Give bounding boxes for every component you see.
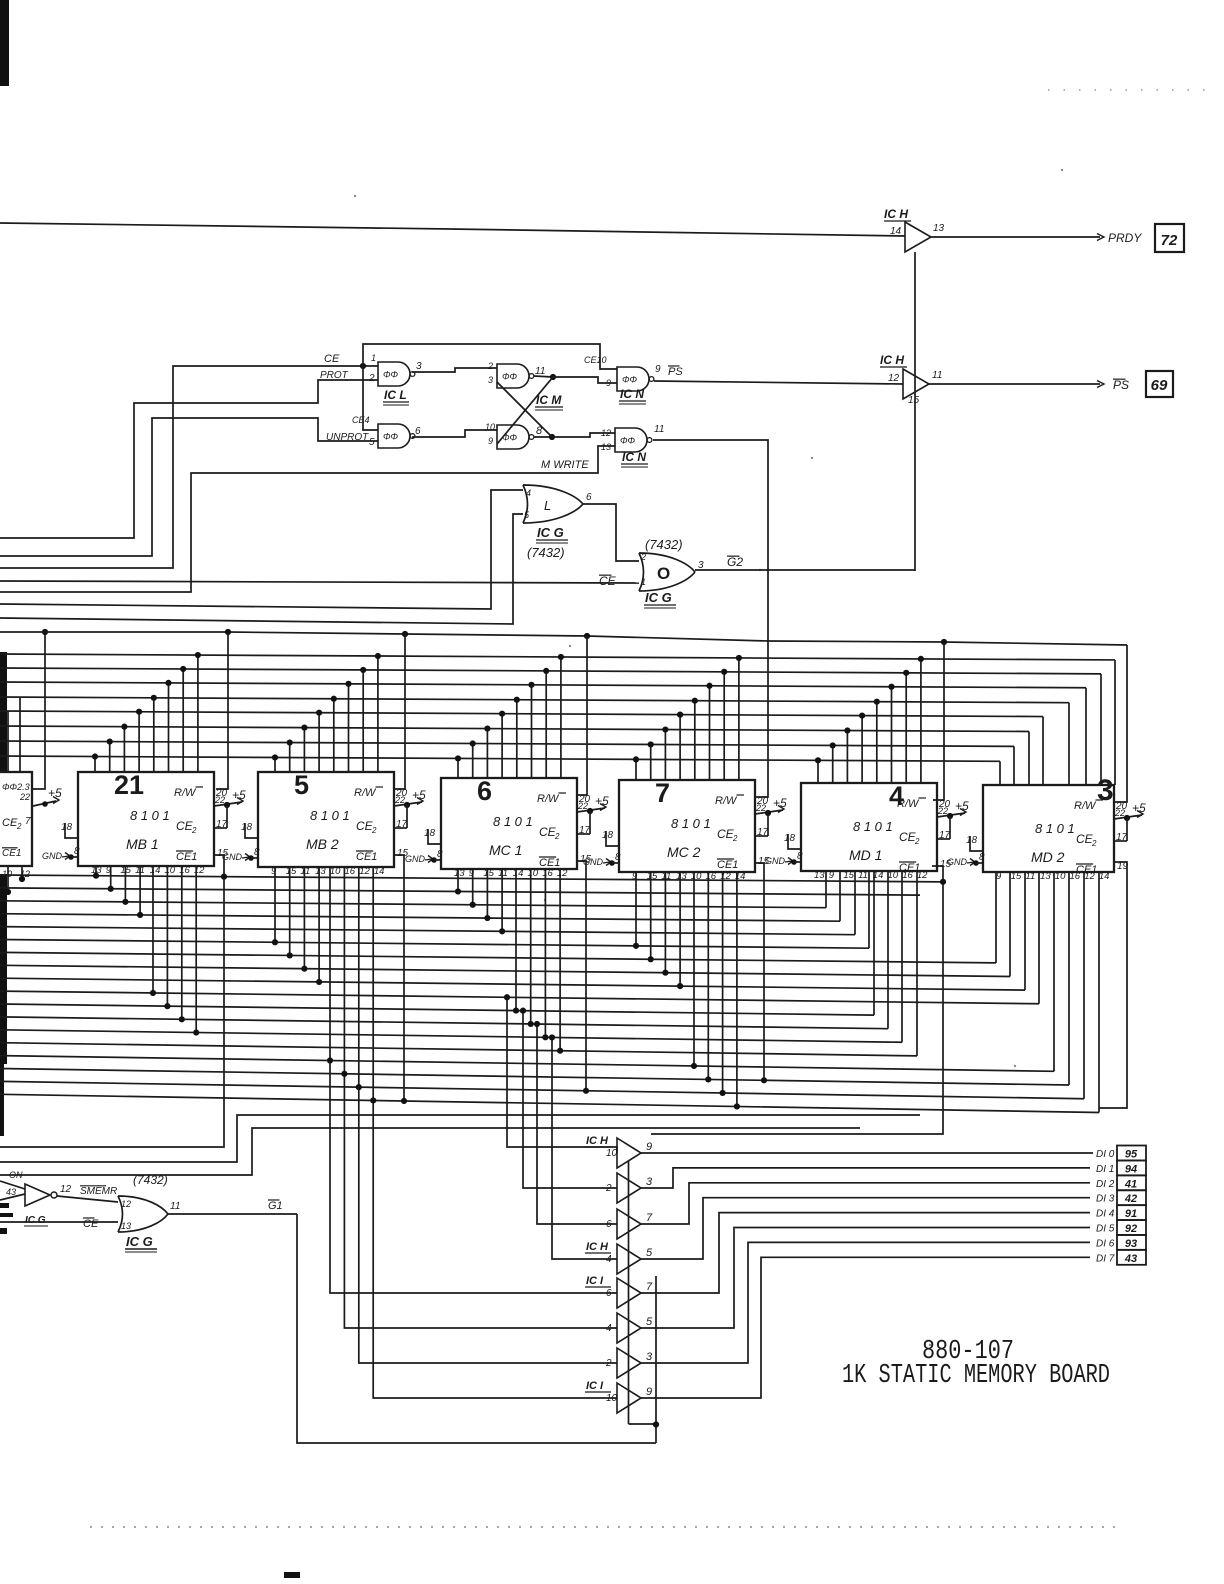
svg-text:R/W: R/W [715,795,738,807]
svg-text:6: 6 [606,1288,612,1299]
wire MB1 bottom pins deep [152,866,154,993]
svg-text:4: 4 [606,1254,612,1265]
svg-text:10: 10 [2,869,12,879]
buffer IC (DI4) [617,1278,641,1308]
svg-text:8: 8 [797,851,803,862]
wire lower bus line D10 [0,1004,874,1015]
svg-text:16: 16 [1070,871,1081,882]
wire latch A output [534,376,553,377]
svg-text:3: 3 [488,375,493,385]
wire lower bus line D12 [0,1030,902,1042]
wire lower bus line D16 [0,1081,1084,1098]
svg-text:22: 22 [1114,808,1125,818]
wire R/W drop MB2 [395,634,405,789]
wire buffer7 output to DI6 [641,1242,1090,1363]
svg-text:8: 8 [74,846,80,857]
wire addr drop MB2 pin2 [289,743,291,772]
wire addr drop MD1 pin4 [861,716,863,783]
wire lower bus line D3 [0,914,840,921]
svg-text:6: 6 [415,426,421,437]
wire address bus line A3 [0,682,1086,688]
svg-text:18: 18 [966,835,978,846]
svg-text:14: 14 [890,226,902,237]
wire address bus line A8 [0,756,1000,761]
svg-text:22: 22 [19,792,30,802]
wire MB2 deep pin to buffer7 [359,867,617,1363]
wire addr drop MC2 pin5 [694,701,696,780]
svg-text:SMEMR: SMEMR [80,1186,117,1197]
buffer IC (DI3) [617,1244,641,1274]
svg-text:16: 16 [179,865,190,876]
wire bus to buffer3 feed [537,1024,617,1224]
gate IC N nand B [615,428,647,452]
wire addr drop MC2 pin1 [635,759,637,780]
svg-text:ΦΦ: ΦΦ [622,375,638,385]
svg-text:11: 11 [858,870,868,881]
svg-text:7: 7 [655,778,670,808]
svg-text:10: 10 [888,870,899,881]
pin box DI4 [1117,1205,1146,1220]
buffer IC (DI7) [617,1383,641,1413]
svg-text:11: 11 [1025,871,1035,882]
wire addr drop MC2 pin3 [664,730,666,780]
scan artifact: bottom dash mark [284,1572,300,1578]
gate IC G or-2 [639,553,695,591]
svg-text:18: 18 [784,833,796,844]
svg-text:7: 7 [646,1212,653,1224]
wire MB1 bottom pins shallow [95,866,97,876]
wire G1 route to buffer enables [297,1214,656,1443]
svg-text:10: 10 [330,866,341,877]
svg-text:8: 8 [437,849,443,860]
svg-text:GND: GND [42,851,63,861]
wire G2 output [695,569,915,571]
svg-text:CE10: CE10 [584,355,607,365]
wire lower bus line D1 [0,888,920,895]
pin box DI6 [1117,1235,1146,1250]
svg-text:MD 1: MD 1 [849,847,882,863]
svg-text:43: 43 [1124,1253,1137,1265]
svg-text:+5: +5 [773,796,787,810]
svg-text:8: 8 [254,847,260,858]
svg-text:GND: GND [765,856,786,866]
wire addr drop MD1 pin5 [876,702,878,783]
svg-text:4: 4 [606,1323,612,1334]
svg-text:IC M: IC M [536,393,562,407]
svg-text:DI 4: DI 4 [1096,1209,1115,1220]
wire A8 wrap drop to MD2 [999,761,1001,785]
svg-text:11: 11 [170,1201,180,1212]
svg-text:15: 15 [908,395,920,406]
svg-text:9: 9 [271,866,277,877]
wire addr drop MB2 pin8 [377,656,379,772]
partial chip RW vertical [32,632,45,789]
svg-text:14: 14 [150,865,161,876]
wire latch cross coupling 2 [497,382,552,437]
svg-text:10: 10 [606,1393,618,1404]
svg-text:42: 42 [1124,1193,1137,1205]
gate IC G or-1 [523,485,583,523]
wire addr drop MC1 pin1 [457,758,459,778]
wire or1 input5 feed [0,514,523,624]
gate IC M nand A (latch) [497,364,529,388]
wire R/W drop MD2 (wrap corner) [1115,645,1127,802]
svg-text:11: 11 [932,370,942,381]
wire PS to buffer [654,381,903,384]
wire MB2 deep pin to buffer6 [344,867,617,1328]
svg-text:15: 15 [286,866,297,877]
svg-text:9: 9 [488,436,493,446]
wire addr drop MC1 pin7 [545,671,547,778]
RAM 8101 MC2 [619,780,755,872]
wire addr drop MB1 pin3 [123,727,125,772]
wire addr drop MD1 pin7 [905,673,907,783]
wire R/W drop MC1 [578,636,587,795]
svg-text:6: 6 [586,492,592,503]
wire PRDY input rail [0,223,905,236]
wire addr drop MC1 pin6 [531,685,533,778]
svg-text:10: 10 [1055,871,1066,882]
wire buffer6 output to DI5 [641,1228,1090,1329]
svg-text:R/W: R/W [354,787,377,799]
svg-text:ΦΦ: ΦΦ [383,432,399,442]
svg-text:95: 95 [1125,1149,1138,1161]
svg-text:DI 6: DI 6 [1096,1238,1115,1249]
svg-text:12: 12 [888,373,900,384]
wire ICN B output to RW bus [653,440,768,641]
svg-text:IC G: IC G [25,1215,46,1226]
scan artifact: sparse specks [354,195,356,197]
wire addr drop MB1 pin6 [168,683,170,772]
svg-text:2: 2 [371,826,377,835]
svg-text:18: 18 [241,822,253,833]
svg-text:IC N: IC N [620,387,644,401]
wire SMEMR to or3 [57,1196,118,1202]
wire R/W drop MB1 [216,632,228,789]
svg-text:DI 3: DI 3 [1096,1194,1115,1205]
wire addr drop MC2 pin8 [738,658,740,780]
svg-text:14: 14 [513,868,524,879]
wire PRDY output [931,236,1100,238]
wire CE1 MC1 drop [577,861,586,1091]
svg-text:(7432): (7432) [527,545,565,560]
wire buffer2 output to DI1 [641,1168,1090,1188]
svg-text:ΦΦ2.3: ΦΦ2.3 [2,782,30,792]
buffer IC H (PS) U-H2 [903,369,929,399]
svg-text:14: 14 [374,866,385,877]
wire addr drop MB1 pin4 [138,712,140,772]
svg-text:22: 22 [937,806,948,816]
partial chip bottom pin stubs [7,866,9,892]
wire lower bus line D11 [0,1017,888,1029]
svg-text:O: O [657,564,670,583]
wire MC1 bottom pins deep [515,869,517,1011]
wire bus to buffer2 feed [523,1011,617,1188]
svg-text:12: 12 [917,870,928,881]
svg-text:2: 2 [914,837,920,846]
wire addr drop MB1 pin7 [182,669,184,772]
svg-text:CE: CE [83,1218,99,1230]
svg-text:6: 6 [477,776,492,806]
svg-text:10: 10 [528,868,539,879]
wire latch to ICN A [553,377,617,383]
svg-text:6: 6 [606,1219,612,1230]
pin box 72 (bus pin PRDY) [1155,224,1184,252]
wire addr drop MB1 pin5 [153,698,155,772]
wire addr drop MB2 pin3 [303,728,305,772]
svg-text:15: 15 [843,870,854,881]
svg-text:94: 94 [1125,1163,1137,1175]
wire latch cross coupling 1 [497,377,553,444]
svg-text:2: 2 [554,832,560,841]
svg-text:IC I: IC I [586,1275,604,1287]
wire bus to buffer1 feed [507,997,617,1153]
svg-text:13: 13 [601,442,611,452]
svg-text:7: 7 [646,1281,653,1293]
svg-text:DI 0: DI 0 [1096,1149,1115,1160]
wire addr drop MC1 pin5 [516,700,518,778]
wire address bus line A2 [0,668,1101,674]
wire CE-bar feed to or2 [0,581,639,583]
wire MD2 lower corner ends (lines rise to pins) [995,872,997,963]
svg-text:9: 9 [996,871,1002,882]
svg-text:21: 21 [114,770,144,800]
buffer IC (DI2) [617,1209,641,1239]
svg-text:72: 72 [1161,232,1178,249]
svg-text:+5: +5 [48,786,62,800]
svg-text:PRDY: PRDY [1108,231,1142,245]
svg-text:GND: GND [947,857,968,867]
wire addr drop MD1 pin1 [817,760,819,783]
wire addr drop MC1 pin4 [501,714,503,778]
svg-text:13: 13 [315,866,326,877]
wire G1 output [168,1213,297,1215]
wire or1 out to or2 [583,504,639,561]
wire addr drop MB1 pin2 [109,742,111,772]
svg-text:R/W: R/W [1074,800,1097,812]
svg-text:ON: ON [9,1170,23,1180]
pin box DI7 [1117,1250,1146,1265]
svg-text:IC I: IC I [586,1380,604,1392]
svg-text:5: 5 [294,770,309,800]
svg-text:ΦΦ: ΦΦ [620,436,636,446]
wire A3 wrap drop to MD2 [1085,688,1087,785]
wire addr drop MB2 pin7 [362,670,364,772]
svg-text:13: 13 [1040,871,1051,882]
svg-text:8: 8 [615,852,621,863]
svg-text:12: 12 [557,868,568,879]
wire lower bus line D8 [0,978,1025,990]
svg-text:2: 2 [16,822,22,831]
svg-text:16: 16 [345,866,356,877]
svg-text:5: 5 [646,1316,653,1328]
wire addr drop MC1 pin2 [472,744,474,778]
wire latch B output [534,436,552,438]
svg-text:CE1: CE1 [356,851,377,863]
pin box DI0 [1117,1146,1146,1161]
RAM 8101 MB2 [258,772,394,867]
svg-text:13: 13 [121,1221,131,1231]
svg-text:IC G: IC G [537,525,564,540]
svg-text:5: 5 [646,1247,653,1259]
wire A6 wrap drop to MD2 [1028,731,1030,785]
pin box DI3 [1117,1190,1146,1205]
scan artifact: top-left black bar [0,0,9,86]
wire address bus line A4 [0,697,1069,703]
wire return W2 [0,1115,920,1162]
svg-text:MC 2: MC 2 [667,844,701,860]
wire lower bus line D15 [0,1069,1069,1086]
wire address bus line A5 [0,711,1043,717]
svg-text:13: 13 [814,870,825,881]
gate IC L nand A [378,362,410,386]
svg-text:2: 2 [605,1183,612,1194]
svg-text:15: 15 [483,868,494,879]
wire gateB out to latch [412,430,497,437]
svg-text:CE1: CE1 [2,848,21,859]
wire addr drop MD1 pin6 [891,687,893,783]
svg-text:15: 15 [1011,871,1022,882]
svg-text:3: 3 [1097,774,1114,807]
wire CE1 MD1 drop long [651,866,943,1134]
svg-text:+5: +5 [1132,801,1146,815]
wire addr drop MB2 pin5 [333,699,335,772]
gate IC L nand B [378,424,410,448]
svg-text:L: L [544,498,551,513]
buffer IC (DI5) [617,1313,641,1343]
svg-text:2: 2 [732,834,738,843]
RAM 8101 MD2 [983,785,1114,872]
wire return W3 [0,1128,860,1175]
wire addr drop MB1 pin8 [197,655,199,772]
svg-text:16: 16 [902,870,913,881]
wire A5 wrap drop to MD2 [1042,717,1044,785]
RAM 8101 MC1 [441,778,577,869]
svg-text:10: 10 [165,865,176,876]
svg-text:DI 7: DI 7 [1096,1253,1115,1264]
wire MC2 bottom pins deep [693,872,695,1066]
wire buffer8 output to DI7 [641,1257,1090,1398]
svg-text:8 1 0 1: 8 1 0 1 [853,819,893,834]
svg-text:18: 18 [602,830,614,841]
svg-text:1: 1 [641,577,646,587]
pin box DI2 [1117,1175,1146,1190]
svg-text:IC H: IC H [586,1241,609,1253]
svg-text:MB 2: MB 2 [306,836,339,852]
svg-text:GND: GND [222,852,243,862]
wire buffer4 output to DI3 [641,1198,1090,1259]
svg-text:2: 2 [191,826,197,835]
svg-text:92: 92 [1125,1223,1137,1235]
svg-text:13: 13 [454,868,465,879]
svg-text:69: 69 [1151,377,1168,394]
wire CE top rail to CE10 [363,344,617,369]
wire addr drop MC2 pin6 [709,686,711,780]
svg-text:11: 11 [654,424,664,435]
gate IC G or-3 [118,1196,168,1232]
wire CE1 MD2 drop [1099,862,1127,1108]
svg-text:9: 9 [469,868,475,879]
wire CE feed to or3 [0,1221,118,1223]
wire addr drop MC1 pin8 [560,657,562,778]
wire lower bus line D0 [0,875,943,882]
svg-text:91: 91 [1125,1208,1137,1220]
svg-text:R/W: R/W [174,787,197,799]
RAM 8101 MD1 [801,783,937,871]
svg-text:IC L: IC L [384,388,407,402]
svg-text:12: 12 [359,866,370,877]
svg-text:CE1: CE1 [176,851,197,863]
svg-text:CE: CE [2,817,18,829]
svg-text:9: 9 [655,364,661,375]
svg-text:R/W: R/W [897,798,920,810]
wire A4 wrap drop to MD2 [1068,703,1070,785]
svg-text:18: 18 [424,828,436,839]
wire CE1 MB1 return W1 [0,855,224,1147]
svg-text:MD 2: MD 2 [1031,849,1065,865]
svg-text:9: 9 [646,1141,652,1153]
svg-text:8: 8 [979,852,985,863]
svg-text:CE4: CE4 [352,415,370,425]
svg-text:22: 22 [394,795,405,805]
svg-text:22: 22 [214,795,225,805]
svg-text:9: 9 [829,870,835,881]
wire address bus line A6 [0,726,1029,731]
wire addr drop MC2 pin7 [723,672,725,780]
wire addr drop MB1 pin1 [94,757,96,772]
svg-text:43: 43 [6,1187,16,1197]
wire lower bus line D17 [0,1094,1099,1112]
svg-text:DI 1: DI 1 [1096,1164,1114,1175]
wire CE feed from left [0,366,338,568]
wire CE to lower gate [363,366,378,430]
wire MC2 bottom pins shallow [635,872,637,946]
svg-text:93: 93 [1125,1238,1137,1250]
wire addr drop MB2 pin1 [274,757,276,772]
wire MB2 deep pin to buffer8 [373,867,617,1398]
svg-text:16: 16 [542,868,553,879]
svg-text:R/W: R/W [537,793,560,805]
wire enable rail segment 2 [655,1276,657,1443]
svg-text:12: 12 [1084,871,1095,882]
svg-text:14: 14 [1099,871,1110,882]
svg-text:8 1 0 1: 8 1 0 1 [310,808,350,823]
gate inverter (SMEMR) IC [0,1181,25,1189]
wire addr drop MB2 pin6 [348,684,350,772]
svg-text:2: 2 [640,552,646,562]
buffer IC H (PRDY) U-H1 [905,222,931,252]
RAM 8101 MB1 [78,772,214,866]
pin box DI5 [1117,1220,1146,1235]
svg-text:8 1 0 1: 8 1 0 1 [130,808,170,823]
scan artifact: faint dotted line bottom [90,1526,1120,1528]
svg-text:2: 2 [487,361,493,371]
wire CE1 MB2 drop [394,855,404,1101]
wire buffer enable rail [628,1161,630,1424]
svg-text:12: 12 [60,1184,72,1195]
svg-text:12: 12 [121,1199,131,1209]
buffer IC (DI6) [617,1348,641,1378]
wire MB2 deep pin to buffer5 [330,867,617,1293]
svg-text:1K STATIC MEMORY BOARD: 1K STATIC MEMORY BOARD [842,1361,1110,1391]
wire addr drop MD1 pin3 [846,731,848,783]
svg-text:IC G: IC G [645,590,672,605]
wire address bus line A7 [0,741,1014,746]
svg-text:11: 11 [498,868,508,879]
svg-text:7: 7 [25,816,31,827]
svg-text:G1: G1 [268,1200,283,1212]
svg-text:41: 41 [1124,1178,1137,1190]
